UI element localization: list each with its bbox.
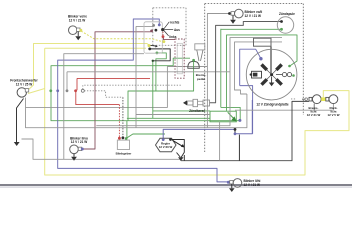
- svg-text:Zündspule: Zündspule: [279, 12, 295, 16]
- svg-text:12 V / 21 W: 12 V / 21 W: [245, 14, 261, 18]
- svg-text:rechts: rechts: [170, 20, 180, 24]
- svg-text:12 V 21 W: 12 V 21 W: [307, 113, 321, 117]
- svg-text:pedal: pedal: [197, 77, 205, 81]
- svg-text:links: links: [169, 35, 176, 39]
- svg-text:12 V / 21 W: 12 V / 21 W: [244, 183, 260, 187]
- svg-text:12 V / 25 W: 12 V / 25 W: [16, 82, 32, 86]
- svg-text:Zündkerze: Zündkerze: [189, 109, 205, 113]
- svg-text:Blinkgeber: Blinkgeber: [116, 152, 133, 156]
- svg-text:12 V / 21 W: 12 V / 21 W: [69, 18, 85, 22]
- svg-text:12 V Zündgrundplatte: 12 V Zündgrundplatte: [256, 102, 289, 106]
- svg-text:12 V 5 W: 12 V 5 W: [328, 113, 340, 117]
- svg-text:12 V 60 W: 12 V 60 W: [159, 145, 173, 149]
- svg-text:Aus: Aus: [174, 28, 180, 32]
- svg-text:12 V / 21 W: 12 V / 21 W: [71, 140, 87, 144]
